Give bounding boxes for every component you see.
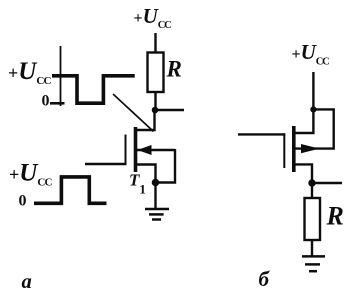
upper waveform trace (output pulse) (52, 76, 135, 103)
svg-text:R: R (326, 202, 344, 231)
svg-text:+UCC: +UCC (9, 160, 52, 189)
wire drain lead of T1 (136, 110, 155, 130)
svg-text:0: 0 (19, 193, 27, 210)
wire resistor R to ground (right) (311, 240, 313, 256)
transistor channel bar (right) (292, 126, 296, 172)
transistor T1 substrate lead with arrow (137, 149, 176, 151)
wire from +Ucc to resistor R (154, 33, 156, 53)
resistor R (left circuit) (148, 53, 164, 93)
node drain junction (dot) (152, 107, 159, 114)
wire output lead (right) (312, 182, 342, 184)
svg-text:+UCC: +UCC (292, 40, 330, 68)
svg-text:0: 0 (42, 93, 50, 110)
wire gate lead of T1 (85, 163, 127, 165)
wire drain lead of right transistor (295, 109, 314, 133)
transistor gate electrode (right) (283, 133, 285, 168)
wire from +Ucc to drain node (right) (312, 72, 314, 109)
wire drain-to-substrate loop (right) (295, 109, 334, 148)
wire source node to resistor R (right) (311, 183, 313, 198)
wire from resistor R to drain node (154, 92, 156, 110)
upper waveform axis (60, 46, 62, 106)
wire source lead (right) (295, 164, 313, 183)
svg-text:а: а (22, 271, 32, 293)
ground (left circuit) (145, 208, 169, 211)
svg-text:T1: T1 (129, 171, 146, 197)
wire output lead from drain node (155, 109, 184, 111)
substrate arrow of right transistor (301, 144, 320, 153)
wire substrate-to-source loop of T1 (156, 149, 176, 183)
wire source lead of T1 (137, 165, 156, 209)
node drain junction right (dot) (310, 106, 316, 112)
wire gate lead (right) (238, 133, 285, 135)
transistor T1 gate electrode (125, 135, 127, 166)
resistor R (right circuit) (305, 198, 321, 240)
node source junction right (dot) (308, 179, 315, 186)
transistor T1 channel bar (134, 127, 138, 172)
svg-text:R: R (166, 57, 182, 82)
ground (right circuit) (302, 255, 325, 258)
upper waveform zero-level tick (50, 102, 65, 105)
svg-text:+UCC: +UCC (8, 58, 51, 87)
lower waveform trace (input pulse) (34, 177, 107, 203)
annotation line from upper waveform to drain (113, 94, 154, 132)
svg-text:б: б (259, 267, 271, 291)
node source junction (dot) (152, 179, 160, 187)
svg-text:+UCC: +UCC (134, 4, 172, 31)
